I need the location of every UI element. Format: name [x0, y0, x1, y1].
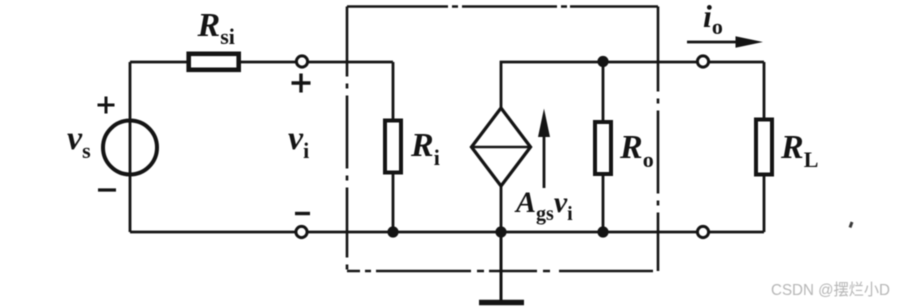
input terminal top (open circle) [296, 56, 307, 67]
wire: R_o branch vertical x=603 [602, 62, 605, 232]
dash-dot frame left edge [346, 7, 349, 272]
minus sign of source [98, 188, 116, 191]
wire: R_i branch vertical x=393 [392, 62, 395, 232]
stray scan mark [850, 222, 852, 228]
ground stem [500, 232, 503, 300]
junction dot: dependent source bottom [495, 226, 506, 237]
resistor R_o [595, 122, 611, 174]
minus sign at input port [295, 212, 310, 215]
junction dot: R_o bottom [597, 226, 608, 237]
dash-dot frame top edge [347, 5, 658, 8]
dash-dot frame bottom edge [347, 270, 658, 273]
wire: bottom rail y=232 [130, 231, 764, 234]
arrow for i_o (pointing right) [687, 41, 740, 44]
dash-dot frame right edge [657, 7, 660, 272]
resistor R_i [385, 121, 401, 173]
svg-text:CSDN @摆烂小D: CSDN @摆烂小D [771, 281, 890, 299]
wire: dependent source bottom stem [500, 186, 503, 232]
plus sign of source [98, 97, 115, 114]
output terminal bottom (open circle) [697, 226, 708, 237]
wire: top-left horizontal from source corner to R_si [130, 61, 187, 64]
junction dot: R_o top [597, 56, 608, 67]
ground bar [479, 300, 524, 306]
resistor R_L [756, 120, 772, 175]
junction dot: R_i bottom [387, 226, 398, 237]
input terminal bottom (open circle) [296, 226, 307, 237]
voltage source v_s circle [103, 121, 157, 175]
diamond middle crossbar [472, 146, 530, 149]
resistor R_si [189, 54, 239, 70]
arrow of dependent source (upward) [543, 132, 546, 188]
wire: R_L branch vertical x=764 [763, 62, 766, 232]
wire: R_si to input terminal and on to R_i corner [241, 61, 393, 64]
wire: left branch vertical through source, x=130 [129, 62, 132, 232]
dependent source U1 diamond [472, 108, 531, 186]
plus sign at input port [292, 74, 311, 93]
output terminal top (open circle) [697, 56, 708, 67]
wire: dependent source top stem and top rail to R_L corner [501, 62, 764, 108]
